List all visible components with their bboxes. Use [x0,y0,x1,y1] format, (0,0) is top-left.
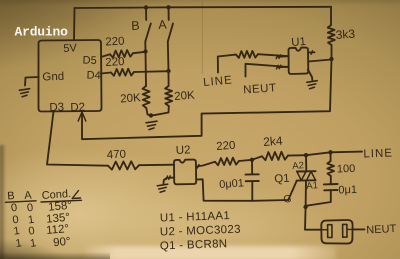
svg-text:1: 1 [29,237,37,250]
svg-text:135°: 135° [46,212,71,226]
svg-text:U1: U1 [291,36,307,49]
svg-text:A: A [24,189,33,202]
svg-text:0μ1: 0μ1 [338,184,357,197]
svg-text:220: 220 [105,56,125,69]
svg-text:LINE: LINE [363,147,393,160]
svg-text:2k4: 2k4 [263,134,284,149]
svg-text:D5: D5 [82,55,96,67]
svg-text:A2: A2 [292,160,304,172]
svg-text:1: 1 [13,225,21,238]
svg-text:20K: 20K [174,90,196,103]
svg-text:220: 220 [105,36,125,49]
svg-text:D3: D3 [49,101,64,114]
svg-text:112°: 112° [46,223,70,237]
svg-text:NEUT: NEUT [366,223,397,237]
svg-text:Q1: Q1 [274,173,290,186]
svg-text:470: 470 [107,149,127,162]
svg-text:20K: 20K [120,92,142,105]
svg-text:100: 100 [337,163,356,176]
svg-text:G: G [283,193,292,205]
svg-text:D2: D2 [70,101,85,114]
svg-text:U2: U2 [176,144,191,157]
svg-text:B: B [7,190,15,202]
svg-text:3k3: 3k3 [335,27,356,42]
svg-text:158°: 158° [48,200,73,214]
svg-text:LINE: LINE [203,74,234,89]
svg-text:5V: 5V [63,42,78,55]
svg-text:1: 1 [15,237,23,250]
svg-text:A: A [158,18,168,32]
svg-text:1: 1 [27,214,35,227]
svg-text:D4: D4 [86,70,100,82]
svg-text:0: 0 [28,225,36,238]
svg-text:U2 - MOC3023: U2 - MOC3023 [160,224,241,239]
svg-text:0μ01: 0μ01 [219,177,244,191]
svg-text:0: 0 [10,202,18,215]
svg-text:0: 0 [26,202,34,215]
svg-text:90°: 90° [53,236,71,249]
svg-text:NEUT: NEUT [243,82,277,96]
svg-text:Cond.: Cond. [41,188,71,202]
svg-text:0: 0 [12,214,20,227]
svg-text:220: 220 [216,140,236,153]
svg-text:Arduino: Arduino [15,25,69,40]
svg-text:Gnd: Gnd [42,71,64,84]
svg-text:U1 - H11AA1: U1 - H11AA1 [160,210,231,224]
svg-text:A1: A1 [306,180,318,192]
svg-text:B: B [131,19,140,33]
